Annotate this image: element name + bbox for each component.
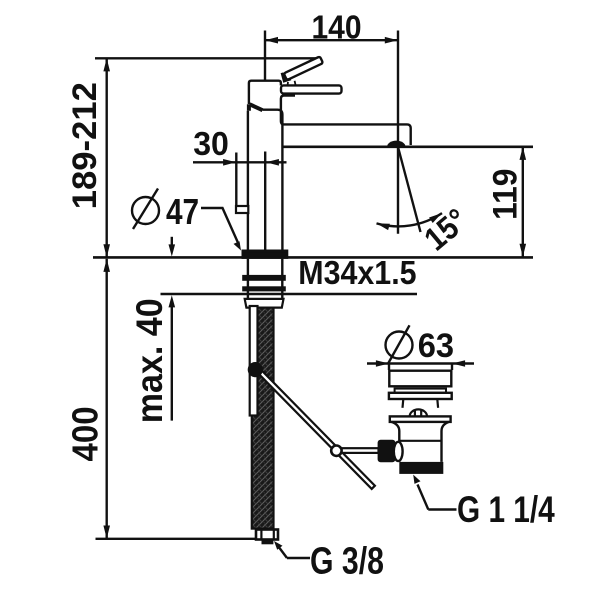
svg-text:47: 47: [166, 192, 199, 232]
svg-text:30: 30: [193, 125, 229, 163]
svg-text:119: 119: [485, 169, 523, 220]
svg-text:400: 400: [66, 406, 106, 461]
svg-text:189-212: 189-212: [67, 82, 105, 209]
svg-text:G 3/8: G 3/8: [310, 540, 384, 582]
svg-text:max. 40: max. 40: [129, 298, 171, 423]
svg-text:M34x1.5: M34x1.5: [298, 254, 416, 292]
svg-text:63: 63: [418, 327, 454, 365]
svg-text:G 1 1/4: G 1 1/4: [457, 490, 555, 531]
svg-text:140: 140: [311, 8, 361, 46]
